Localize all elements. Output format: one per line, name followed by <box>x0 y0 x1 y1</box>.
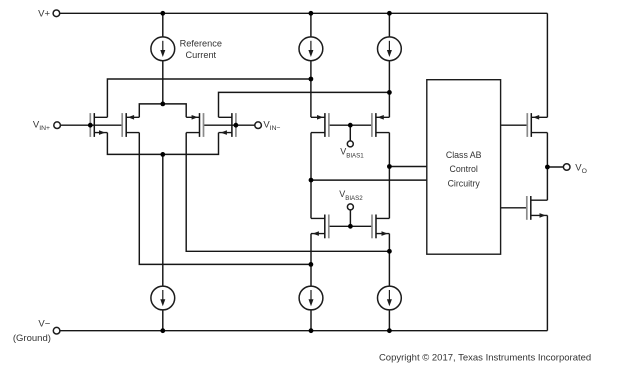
transistor M5 (upper cascode left PMOS) <box>311 113 329 137</box>
node left cascode to box <box>309 178 314 183</box>
wire tail node upper (PMOS pair sources) <box>139 104 186 117</box>
transistor M10 (output NMOS lower) <box>527 196 548 220</box>
node top rail / I2 <box>309 11 314 16</box>
node top rail / I3 <box>387 11 392 16</box>
wire M8 source down to current sink I6 <box>388 234 390 331</box>
node Q2 drain summing <box>309 262 314 267</box>
svg-text:V+: V+ <box>38 8 50 19</box>
current source Reference Current <box>151 37 175 61</box>
wire M7 source down to current sink I5 <box>310 234 312 331</box>
transistor Q1 (input NMOS left outer) <box>90 113 107 137</box>
node Q3 drain summing <box>387 249 392 254</box>
transistor Q4 (input NMOS right outer) <box>219 113 236 137</box>
wire bottom rail V- <box>60 330 548 332</box>
transistor M8 (lower cascode right NMOS) <box>372 215 389 239</box>
wire M5 drain to M7 drain vertical <box>310 133 312 219</box>
wire Class AB box to lower output gate <box>501 207 527 209</box>
wire VBIAS1 gate wire <box>329 125 372 141</box>
svg-text:Copyright © 2017, Texas Instru: Copyright © 2017, Texas Instruments Inco… <box>379 352 591 363</box>
node Q1 drain / I2 column <box>309 77 314 82</box>
svg-text:Current: Current <box>185 50 216 60</box>
svg-text:VIN+: VIN+ <box>33 119 50 132</box>
wire Q3 drain down and across to right summing node <box>186 133 389 252</box>
wire output node vertical <box>546 133 548 201</box>
transistor M6 (upper cascode right PMOS) <box>372 113 390 137</box>
current source I2 (top middle) <box>299 37 323 61</box>
wire VIN+ input to gates of Q1 Q2 <box>60 124 122 126</box>
svg-text:Class AB: Class AB <box>446 150 482 160</box>
transistor M9 (output PMOS upper) <box>527 113 547 137</box>
node Q4 drain / I3 column <box>387 90 392 95</box>
node bottom rail / I6 <box>387 328 392 333</box>
node output <box>545 165 550 170</box>
current source I4 (bottom left tail sink) <box>151 286 175 310</box>
svg-text:V−: V− <box>38 318 50 329</box>
wire reference current source stubs <box>162 13 164 104</box>
wire VBIAS2 gate wire <box>329 210 372 226</box>
wire NMOS tail down to current sink I4 <box>162 154 164 330</box>
transistor Q2 (input PMOS left inner) <box>122 113 139 137</box>
node VIN- at Q4 gate <box>234 123 239 128</box>
node VBIAS2 gate tie <box>348 224 353 229</box>
node NMOS pair tail <box>160 152 165 157</box>
node top rail / reference current <box>160 11 165 16</box>
transistor M7 (lower cascode left NMOS) <box>311 215 329 239</box>
wire right drop from top rail to upper output transistor <box>546 13 548 117</box>
wire Q1 drain up and across to node at x=311 <box>107 79 311 117</box>
wire current source I3 stubs <box>388 13 390 117</box>
svg-text:VO: VO <box>575 162 587 175</box>
node PMOS pair tail <box>160 102 165 107</box>
current source I6 (bottom right) <box>378 286 402 310</box>
wire VIN- input to gates of Q3 Q4 <box>204 124 255 126</box>
terminal V+ <box>53 10 60 17</box>
node VBIAS1 gate tie <box>348 123 353 128</box>
wire Q4 drain up and across to node at x=389 <box>219 92 390 117</box>
wire right cascode node to Class AB box <box>389 166 426 168</box>
wire left cascode node to Class AB box <box>311 179 427 181</box>
terminal VO <box>563 164 570 171</box>
wire top rail V+ <box>60 12 548 14</box>
transistor Q3 (input PMOS right inner) <box>186 113 203 137</box>
wire tail node lower (NMOS pair sources) <box>107 133 218 155</box>
node VIN+ at Q1 gate <box>88 123 93 128</box>
svg-text:Circuitry: Circuitry <box>448 179 481 189</box>
wire Class AB box to upper output gate <box>501 124 528 126</box>
node bottom rail / I4 <box>160 328 165 333</box>
Class AB Control Circuitry box <box>427 80 501 255</box>
terminal V- <box>53 327 60 334</box>
current source I5 (bottom middle) <box>299 286 323 310</box>
terminal VBIAS1 <box>347 141 353 147</box>
wire right rise from bottom rail to lower output transistor <box>546 215 548 330</box>
wire M6 drain to M8 drain vertical <box>388 133 390 219</box>
svg-text:Reference: Reference <box>180 38 222 48</box>
wire current source I2 stubs <box>310 13 312 117</box>
svg-text:VBIAS1: VBIAS1 <box>340 146 364 159</box>
terminal VBIAS2 <box>347 204 353 210</box>
node bottom rail / I5 <box>309 328 314 333</box>
current source I3 (top right) <box>378 37 402 61</box>
wire Q2 drain down and across to left summing node <box>139 133 311 265</box>
terminal VIN- <box>255 122 262 129</box>
svg-text:Control: Control <box>450 164 478 174</box>
terminal VIN+ <box>54 122 61 129</box>
node right cascode to box <box>387 164 392 169</box>
svg-text:VBIAS2: VBIAS2 <box>339 189 363 202</box>
svg-text:VIN−: VIN− <box>263 119 280 132</box>
svg-text:(Ground): (Ground) <box>13 333 51 344</box>
wire output node to VO terminal <box>547 166 563 168</box>
